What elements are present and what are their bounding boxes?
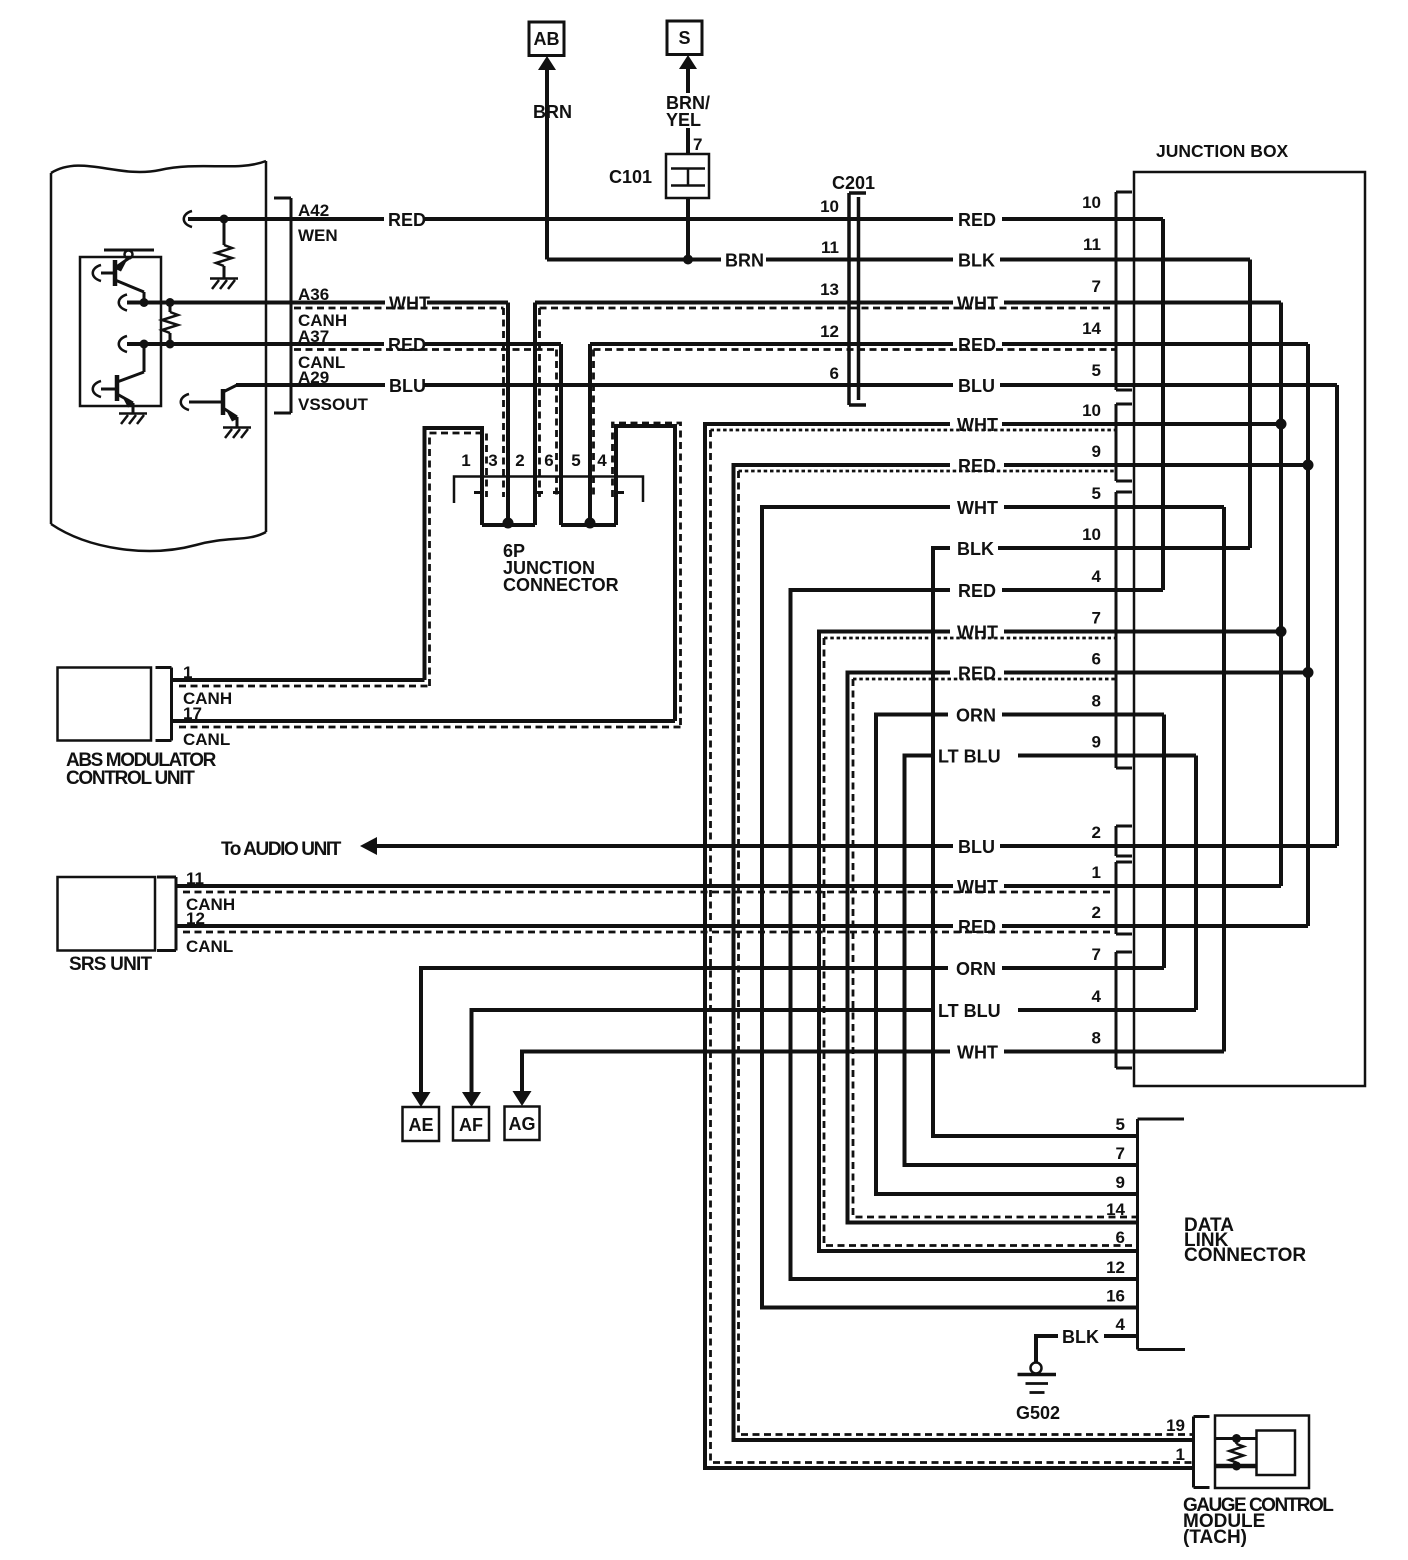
JB connector bracket group E [1116, 862, 1132, 934]
node b3/row11 [1276, 626, 1287, 637]
JB connector bracket group D [1116, 826, 1132, 856]
wire WHT JB pin5 (row8) to DLC 16 [762, 507, 1224, 1308]
svg-text:RED: RED [388, 335, 426, 355]
junction box outline [1134, 172, 1365, 1086]
arrow Q2 emitter [123, 398, 134, 408]
gauge control module box [1215, 1416, 1309, 1489]
arrow Q3 emitter [227, 412, 238, 422]
svg-text:4: 4 [1116, 1315, 1126, 1334]
svg-text:8: 8 [1092, 1029, 1101, 1048]
svg-text:WHT: WHT [957, 877, 998, 897]
wire ABS CANH riser [425, 428, 483, 680]
ABS connector bracket [156, 668, 172, 741]
svg-text:6: 6 [830, 364, 839, 383]
hook CANH [119, 295, 127, 311]
svg-text:BRN: BRN [533, 102, 572, 122]
wire ORN JB pin7 (row18) to AE [421, 968, 1164, 1094]
wire WHT JB pin10 (row6) [705, 424, 1281, 1468]
svg-text:BRN: BRN [725, 251, 764, 271]
node gauge resistor bottom [1232, 1462, 1241, 1471]
svg-text:14: 14 [1106, 1200, 1125, 1219]
wire A36 WHT drop to 6P [506, 303, 510, 524]
label 6P JUNCTION CONNECTOR [503, 541, 619, 595]
node b3/row6 [1276, 419, 1287, 430]
wire row11 dotted [824, 637, 1116, 640]
arrow up into S [679, 55, 697, 69]
wire RED from 6P up to C201 [588, 344, 592, 523]
module PCM outline (torn edges) [51, 161, 266, 551]
JB internal bus b1 (pin10 to pin4) [1161, 219, 1165, 590]
label GAUGE CONTROL MODULE (TACH) [1183, 1495, 1334, 1548]
wire RED CANL row (solid) [291, 342, 384, 346]
wire BLU to audio unit (JB pin 2 top) [377, 844, 953, 848]
svg-text:BLU: BLU [958, 376, 995, 396]
connector AF [453, 1107, 489, 1141]
svg-text:7: 7 [1092, 277, 1101, 296]
svg-text:BLK: BLK [957, 539, 994, 559]
svg-text:RED: RED [958, 664, 996, 684]
junction box pin numbers (middle/lower groups) [1082, 401, 1101, 1048]
svg-text:WHT: WHT [957, 623, 998, 643]
SRS unit box [58, 877, 156, 951]
svg-text:9: 9 [1116, 1173, 1125, 1192]
wire ABS CANL row [172, 719, 676, 723]
connector S (to sheet S) [667, 21, 702, 55]
JB connector bracket group A [1116, 192, 1132, 390]
svg-text:CANL: CANL [183, 730, 230, 749]
hook Q3 base [181, 394, 189, 410]
hook Q2 base [93, 381, 101, 397]
node b4/row7 [1303, 460, 1314, 471]
wire A36 WHT drop dash [502, 308, 505, 497]
svg-text:1: 1 [183, 663, 192, 682]
svg-text:2: 2 [1092, 903, 1101, 922]
svg-text:5: 5 [571, 451, 580, 470]
JB internal bus b7 (ORN pin8 to pin7) [1162, 715, 1166, 969]
svg-text:2: 2 [515, 451, 524, 470]
wire WHT CANH row (solid) [291, 301, 385, 305]
wire RED JB pin9 (row7) [734, 465, 1309, 1440]
transistor Q1 (CANH driver) [101, 259, 144, 303]
svg-text:S: S [678, 28, 690, 48]
wire from BRN/YEL label to C101 [686, 128, 690, 154]
wire BLU VSSOUT row [236, 383, 385, 387]
svg-text:11: 11 [821, 238, 839, 257]
node CANL/R2 [166, 340, 175, 349]
node CANH/Q1 [140, 298, 149, 307]
connector AB (to sheet AB) [529, 22, 564, 56]
wire BRN/BLK row [547, 258, 721, 262]
wire ABS CANL riser dash [613, 423, 681, 727]
ABS modulator control unit box [58, 668, 152, 741]
svg-text:6: 6 [1092, 650, 1101, 669]
JB connector bracket group C [1116, 492, 1132, 768]
svg-text:10: 10 [820, 197, 839, 216]
svg-text:14: 14 [1082, 319, 1101, 338]
wire gauge pin19 internal [1215, 1437, 1257, 1440]
wire CANH internal [127, 301, 291, 305]
svg-text:LT BLU: LT BLU [938, 747, 1001, 767]
arrow into AF [462, 1092, 481, 1107]
wire ABS CANH row [172, 678, 425, 682]
svg-text:JUNCTION BOX: JUNCTION BOX [1156, 141, 1289, 161]
svg-text:1: 1 [461, 451, 470, 470]
arrow into AE [412, 1092, 431, 1107]
wire gauge pin1 internal [1215, 1464, 1257, 1469]
connector 6P housing bar [454, 477, 643, 504]
svg-text:BLK: BLK [1062, 1327, 1099, 1347]
wire RED JB pin4 (row10) to DLC 12 [791, 590, 1164, 1279]
gauge pin numbers [1166, 1416, 1185, 1464]
svg-text:ORN: ORN [956, 959, 996, 979]
wire BLK DLC pin4 to ground [1036, 1336, 1138, 1363]
svg-text:7: 7 [693, 135, 702, 154]
svg-text:C101: C101 [609, 167, 652, 187]
node CANL/Q2 [140, 340, 149, 349]
svg-text:11: 11 [1083, 235, 1101, 254]
svg-text:7: 7 [1116, 1144, 1125, 1163]
wire CANH shield dash row [294, 307, 1116, 310]
resistor R3 (gauge) [1230, 1439, 1244, 1467]
wire SRS CANH dash [183, 891, 1116, 894]
wire SRS CANH row (to JB pin 1) [176, 884, 953, 888]
svg-text:WHT: WHT [389, 294, 430, 314]
JB internal bus b3 (WHT bus) [1279, 303, 1283, 887]
transistor Q3 (VSSOUT) [189, 385, 237, 427]
svg-text:BLU: BLU [389, 376, 426, 396]
C201 pin numbers (left side) [820, 197, 839, 383]
svg-text:9: 9 [1092, 442, 1101, 461]
gauge connector bracket [1194, 1417, 1210, 1488]
svg-text:4: 4 [597, 451, 607, 470]
wire BRN stem to AB [545, 66, 549, 260]
svg-text:5: 5 [1092, 361, 1101, 380]
svg-text:BLU: BLU [958, 837, 995, 857]
svg-text:WHT: WHT [957, 294, 998, 314]
connector 6P cup 1 [474, 493, 543, 526]
label DATA LINK CONNECTOR [1184, 1215, 1306, 1266]
wire WHT up dash [538, 308, 541, 497]
wire 6P to ABS CANL riser (right side) [616, 426, 675, 721]
connector 6P cup 2 [553, 493, 624, 526]
svg-text:3: 3 [488, 451, 497, 470]
module pin labels [298, 201, 369, 414]
svg-text:1: 1 [1092, 863, 1101, 882]
node 6P cup2 junction [585, 518, 596, 529]
hook CANL [119, 336, 127, 352]
svg-text:RED: RED [958, 210, 996, 230]
svg-text:8: 8 [1092, 692, 1101, 711]
wire LT BLU JB pin4 (row19) to AF [472, 1010, 1197, 1094]
svg-text:BLK: BLK [958, 251, 995, 271]
svg-text:CANL: CANL [186, 937, 233, 956]
wire SRS CANL row (to JB pin 2) [176, 924, 953, 928]
wire RED up dash [592, 350, 595, 498]
wire CANL internal [127, 342, 291, 346]
connector C201 [849, 193, 866, 405]
svg-text:LT BLU: LT BLU [938, 1001, 1001, 1021]
pin circle Q1 emitter to rail [125, 251, 133, 259]
supply rail for Q1 [104, 249, 154, 252]
wire WHT JB pin8 (row20) to AG [522, 1052, 1224, 1094]
svg-text:12: 12 [820, 322, 839, 341]
ground (Q2) [119, 414, 147, 425]
wire BLK JB pin10 (row9) to DLC 5 [933, 548, 1250, 1136]
wire row12 dotted [853, 678, 1116, 681]
resistor R1 (WEN pull) [216, 219, 232, 278]
wire BRN/YEL stem below S [686, 65, 690, 93]
svg-text:ORN: ORN [956, 706, 996, 726]
svg-text:13: 13 [820, 280, 839, 299]
node A42/R1 junction [220, 215, 229, 224]
svg-text:WHT: WHT [957, 1043, 998, 1063]
svg-text:AB: AB [534, 29, 560, 49]
wire ABS CANH riser dash [430, 433, 487, 686]
wire row6 drop dash (V2) [711, 430, 1193, 1463]
ground (Q3) [223, 428, 251, 439]
junction box pin numbers (top group) [1082, 193, 1101, 380]
svg-text:5: 5 [1116, 1115, 1125, 1134]
svg-text:6: 6 [544, 451, 553, 470]
wire ORN JB pin8 (row13) to DLC 9 [876, 715, 1164, 1195]
svg-text:7: 7 [1092, 945, 1101, 964]
svg-text:RED: RED [958, 581, 996, 601]
svg-text:2: 2 [1092, 823, 1101, 842]
JB connector bracket group B [1116, 404, 1132, 481]
svg-text:11: 11 [186, 869, 204, 888]
JB internal bus b8 (LT BLU pin9 to pin4) [1194, 756, 1198, 1011]
svg-text:1: 1 [1176, 1445, 1185, 1464]
JB internal bus b5 (BLU bus) [1335, 385, 1339, 846]
svg-text:To AUDIO UNIT: To AUDIO UNIT [221, 839, 342, 860]
6P pin numbers [461, 451, 607, 470]
gauge inner element box [1257, 1431, 1296, 1476]
svg-text:CONNECTOR: CONNECTOR [1184, 1245, 1306, 1266]
svg-text:RED: RED [388, 210, 426, 230]
node 6P cup1 junction [503, 518, 514, 529]
svg-text:10: 10 [1082, 401, 1101, 420]
wire RED row7 dotted [739, 470, 1117, 473]
hook Q1 base [93, 265, 101, 281]
ground (R1) [210, 279, 238, 290]
svg-text:10: 10 [1082, 525, 1101, 544]
wire RED JB pin6 (row12) to DLC 14 [848, 673, 1309, 1223]
connector C101 [666, 154, 709, 198]
svg-text:6: 6 [1116, 1228, 1125, 1247]
wire WHT row6 dotted [711, 429, 1117, 432]
SRS pin labels [186, 869, 235, 956]
wire WHT from 6P up to C201 [533, 303, 537, 526]
svg-text:WEN: WEN [298, 226, 338, 245]
wire LT BLU JB pin9 (row14) to DLC 7 [905, 756, 1197, 1166]
JB internal bus b2 (pin11 to pin10 BLK) [1248, 260, 1252, 549]
svg-text:RED: RED [958, 917, 996, 937]
wire WHT JB pin7 (row11) to DLC 6 [819, 632, 1281, 1252]
svg-text:WHT: WHT [957, 498, 998, 518]
resistor R2 (CAN terminator) [162, 303, 178, 345]
wire CANL shield dash row [294, 348, 1116, 351]
svg-text:17: 17 [183, 704, 202, 723]
hook A42 internal [184, 211, 192, 227]
label BRN/YEL [666, 93, 710, 130]
svg-text:WHT: WHT [957, 415, 998, 435]
ground G502 [1018, 1363, 1057, 1393]
node CANH/R2 [166, 298, 175, 307]
svg-text:CONNECTOR: CONNECTOR [503, 575, 619, 595]
JB internal bus b4 (RED bus) [1306, 344, 1310, 926]
wire A42 internal [188, 217, 291, 221]
arrow to audio unit [360, 837, 377, 855]
svg-text:AG: AG [509, 1114, 536, 1134]
svg-text:10: 10 [1082, 193, 1101, 212]
wire C101 down to BRN junction [686, 198, 690, 260]
JB internal bus b6 (WHT pin5 to pin8) [1222, 507, 1226, 1052]
svg-text:G502: G502 [1016, 1403, 1060, 1423]
svg-text:VSSOUT: VSSOUT [298, 395, 369, 414]
svg-text:SRS UNIT: SRS UNIT [69, 954, 152, 975]
wire A37 RED drop to 6P [559, 344, 563, 525]
wire A37 RED drop dash [555, 350, 558, 498]
svg-text:9: 9 [1092, 733, 1101, 752]
module PCM connector bracket [274, 198, 291, 413]
DLC bracket [1138, 1119, 1186, 1350]
arrow Q1 emitter (points into bar) [115, 262, 127, 272]
wire RED A42 row [291, 217, 384, 221]
label ABS MODULATOR CONTROL UNIT [66, 750, 217, 789]
wire SRS CANL dash [183, 931, 1116, 934]
svg-text:(TACH): (TACH) [1183, 1527, 1247, 1548]
JB connector bracket group F [1116, 952, 1132, 1068]
svg-text:YEL: YEL [666, 110, 701, 130]
node gauge resistor top [1232, 1434, 1241, 1443]
svg-text:RED: RED [958, 335, 996, 355]
svg-text:CONTROL UNIT: CONTROL UNIT [66, 768, 195, 789]
wire ABS CANH dash [179, 685, 430, 688]
node b4/row12 [1303, 667, 1314, 678]
svg-text:12: 12 [186, 909, 205, 928]
wire row7 drop dash (V3) [739, 471, 1193, 1435]
wire row12 drop dash (V7) [853, 679, 1138, 1217]
module inner IC box [80, 257, 161, 406]
svg-text:AF: AF [459, 1115, 483, 1135]
DLC pin numbers [1106, 1115, 1125, 1334]
connector AE [403, 1107, 440, 1141]
svg-text:19: 19 [1166, 1416, 1185, 1435]
svg-text:7: 7 [1092, 609, 1101, 628]
arrow up into AB [538, 56, 556, 70]
svg-text:AE: AE [408, 1115, 433, 1135]
svg-text:5: 5 [1092, 484, 1101, 503]
svg-text:4: 4 [1092, 567, 1102, 586]
svg-text:16: 16 [1106, 1287, 1125, 1306]
svg-text:12: 12 [1106, 1258, 1125, 1277]
arrow into AG [513, 1091, 532, 1106]
node BRN junction dot [683, 255, 693, 265]
wire ABS CANL dash [179, 726, 681, 729]
transistor Q2 (CANL driver) [101, 344, 144, 413]
SRS connector bracket [157, 877, 176, 951]
ABS pin labels [183, 663, 232, 749]
wire row11 drop dash (V6) [824, 638, 1138, 1246]
svg-text:4: 4 [1092, 987, 1102, 1006]
connector AG [505, 1107, 540, 1141]
svg-text:C201: C201 [832, 173, 875, 193]
svg-text:RED: RED [958, 456, 996, 476]
